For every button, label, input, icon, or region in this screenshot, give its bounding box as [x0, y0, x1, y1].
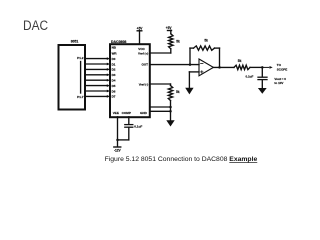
- svg-text:D6: D6: [112, 89, 116, 93]
- svg-text:Figure 5.12 8051 Connection to: Figure 5.12 8051 Connection to DAC808 Ex…: [105, 156, 258, 163]
- svg-text:5k: 5k: [176, 40, 180, 44]
- svg-text:Vref (+): Vref (+): [138, 51, 148, 55]
- svg-text:8051: 8051: [71, 39, 79, 43]
- svg-text:NB: NB: [112, 46, 117, 50]
- svg-text:P1.2: P1.2: [77, 56, 84, 60]
- svg-text:OUT: OUT: [141, 62, 148, 66]
- svg-text:D7: D7: [112, 95, 116, 99]
- svg-text:5k: 5k: [176, 90, 180, 94]
- svg-text:+5V: +5V: [137, 26, 144, 30]
- svg-text:+5V: +5V: [166, 26, 173, 30]
- svg-text:D4: D4: [112, 79, 116, 83]
- svg-text:D3: D3: [112, 73, 116, 77]
- svg-text:D0: D0: [112, 57, 116, 61]
- svg-text:-12V: -12V: [114, 148, 122, 152]
- svg-text:5k: 5k: [204, 39, 208, 43]
- svg-text:0.1uF: 0.1uF: [245, 74, 253, 78]
- svg-text:Vout = 0: Vout = 0: [274, 77, 286, 81]
- svg-text:to 10V: to 10V: [274, 81, 283, 85]
- svg-text:D5: D5: [112, 84, 116, 88]
- svg-text:VEE: VEE: [113, 111, 119, 115]
- svg-text:D1: D1: [112, 62, 116, 66]
- svg-text:COMP: COMP: [122, 111, 131, 115]
- svg-text:D2: D2: [112, 68, 116, 72]
- svg-text:SCOPE: SCOPE: [277, 68, 288, 72]
- svg-text:0.1uF: 0.1uF: [134, 125, 142, 129]
- svg-text:DAC0808: DAC0808: [111, 40, 126, 44]
- svg-text:TO: TO: [277, 63, 282, 67]
- svg-text:WR: WR: [112, 52, 118, 56]
- svg-text:P1.7: P1.7: [77, 95, 84, 99]
- svg-text:GND: GND: [140, 111, 148, 115]
- svg-text:Vref (-): Vref (-): [139, 83, 149, 87]
- svg-text:VCC: VCC: [138, 47, 145, 51]
- svg-text:5k: 5k: [238, 59, 242, 63]
